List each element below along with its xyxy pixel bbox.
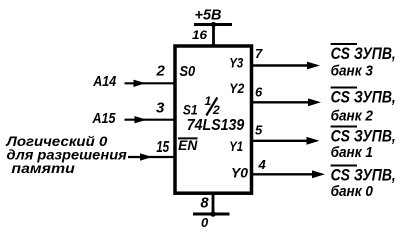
- svg-text:+5В: +5В: [195, 8, 222, 24]
- fraction slash: [206, 98, 217, 116]
- CS overline bank2: [331, 87, 357, 89]
- CS overline bank0: [331, 165, 357, 167]
- wire A15 to pin 3: [125, 119, 177, 121]
- CS overline bank1: [331, 126, 357, 128]
- svg-text:0: 0: [201, 215, 209, 230]
- svg-text:3: 3: [156, 100, 165, 117]
- svg-text:Y1: Y1: [229, 139, 243, 154]
- svg-text:5: 5: [255, 123, 263, 138]
- arrow on enable wire: [140, 153, 152, 160]
- ground bar: [193, 213, 230, 216]
- svg-text:8: 8: [201, 196, 210, 212]
- svg-text:Y3: Y3: [229, 55, 243, 70]
- svg-text:2: 2: [212, 103, 220, 117]
- svg-text:7: 7: [255, 46, 263, 61]
- svg-text:74LS139: 74LS139: [187, 117, 245, 134]
- svg-text:CS ЗУПВ,: CS ЗУПВ,: [331, 89, 396, 107]
- svg-text:Y0: Y0: [231, 165, 248, 181]
- svg-text:1: 1: [205, 94, 212, 108]
- svg-text:4: 4: [258, 157, 267, 172]
- svg-text:S1: S1: [183, 101, 198, 117]
- svg-text:16: 16: [192, 28, 207, 42]
- svg-text:A15: A15: [92, 111, 117, 127]
- wire enable to pin 15: [128, 156, 176, 158]
- svg-text:CS ЗУПВ,: CS ЗУПВ,: [331, 45, 396, 63]
- wire pin16 to power: [212, 25, 215, 47]
- svg-text:EN: EN: [178, 138, 197, 153]
- svg-text:15: 15: [156, 139, 169, 156]
- svg-text:CS ЗУПВ,: CS ЗУПВ,: [331, 167, 396, 185]
- arrow Y3 output: [307, 62, 320, 70]
- decoder U1 74LS139 body: [175, 46, 252, 193]
- junction dot on ground: [210, 211, 216, 217]
- CS overline bank3: [331, 43, 357, 45]
- junction dot on power rail: [211, 22, 216, 27]
- wire Y3 output: [252, 64, 310, 66]
- svg-text:A14: A14: [92, 74, 116, 90]
- svg-text:банк 0: банк 0: [331, 183, 374, 200]
- svg-text:CS ЗУПВ,: CS ЗУПВ,: [331, 128, 396, 146]
- arrow Y2 output: [308, 98, 321, 106]
- svg-text:банк 3: банк 3: [331, 63, 374, 80]
- svg-text:памяти: памяти: [11, 160, 75, 176]
- svg-text:S0: S0: [180, 63, 196, 80]
- power rail bar: [194, 23, 232, 26]
- svg-text:банк 1: банк 1: [331, 144, 373, 161]
- arrow Y0 output: [312, 170, 325, 178]
- arrow on A14 wire: [134, 80, 146, 87]
- svg-text:банк 2: банк 2: [331, 108, 374, 125]
- wire pin 8 to ground: [212, 193, 215, 214]
- svg-text:2: 2: [156, 63, 166, 80]
- svg-text:6: 6: [255, 85, 263, 100]
- wire A14 to pin 2: [125, 82, 177, 84]
- wire Y0 output: [252, 173, 315, 175]
- svg-text:Y2: Y2: [229, 81, 244, 96]
- wire Y1 output: [252, 140, 309, 142]
- EN overline: [178, 137, 198, 139]
- arrow Y1 output: [307, 137, 320, 145]
- wire Y2 output: [252, 101, 311, 103]
- arrow on A15 wire: [135, 116, 147, 123]
